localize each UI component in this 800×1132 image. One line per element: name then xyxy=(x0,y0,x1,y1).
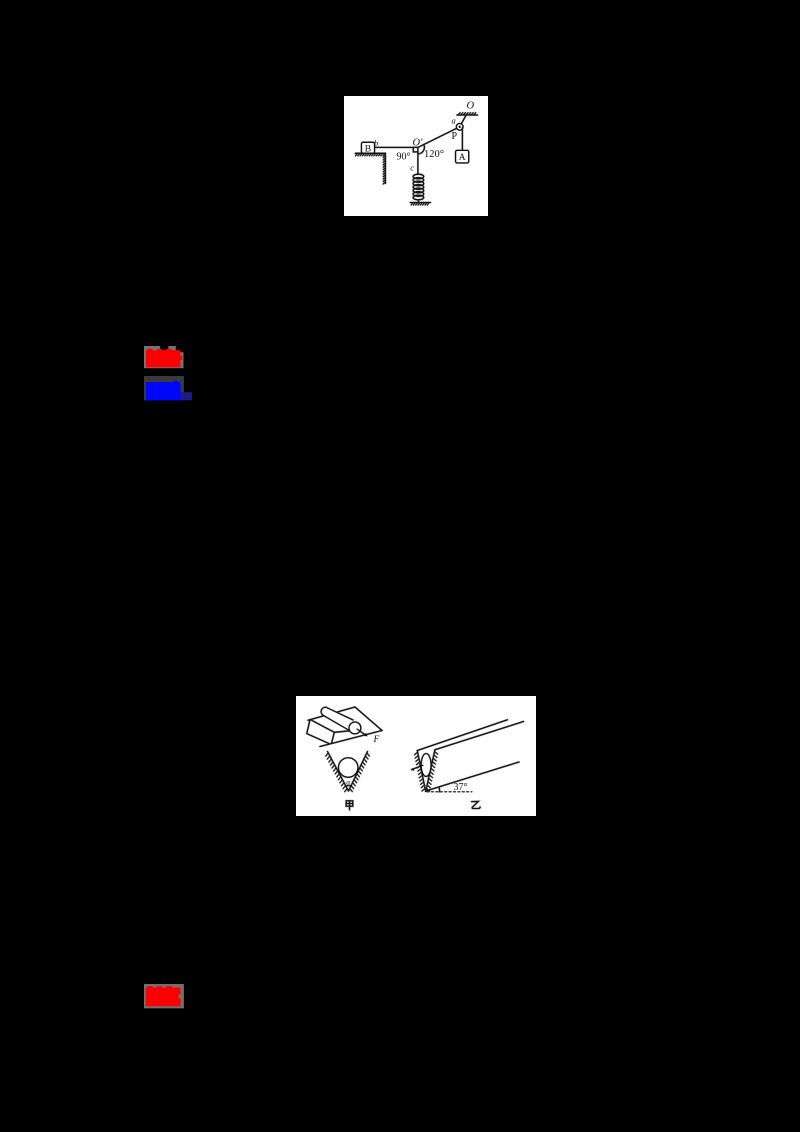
svg-text:F: F xyxy=(373,735,380,745)
svg-text:O′: O′ xyxy=(413,138,424,149)
svg-text:P: P xyxy=(452,131,458,142)
svg-text:b: b xyxy=(374,138,378,148)
svg-text:c: c xyxy=(410,163,414,173)
svg-text:120°: 120° xyxy=(424,149,444,160)
svg-text:O: O xyxy=(467,101,475,112)
svg-text:a: a xyxy=(452,116,456,126)
svg-text:90°: 90° xyxy=(397,152,411,163)
svg-text:A: A xyxy=(459,153,466,163)
svg-text:B: B xyxy=(365,144,371,154)
svg-text:37°: 37° xyxy=(454,782,468,793)
